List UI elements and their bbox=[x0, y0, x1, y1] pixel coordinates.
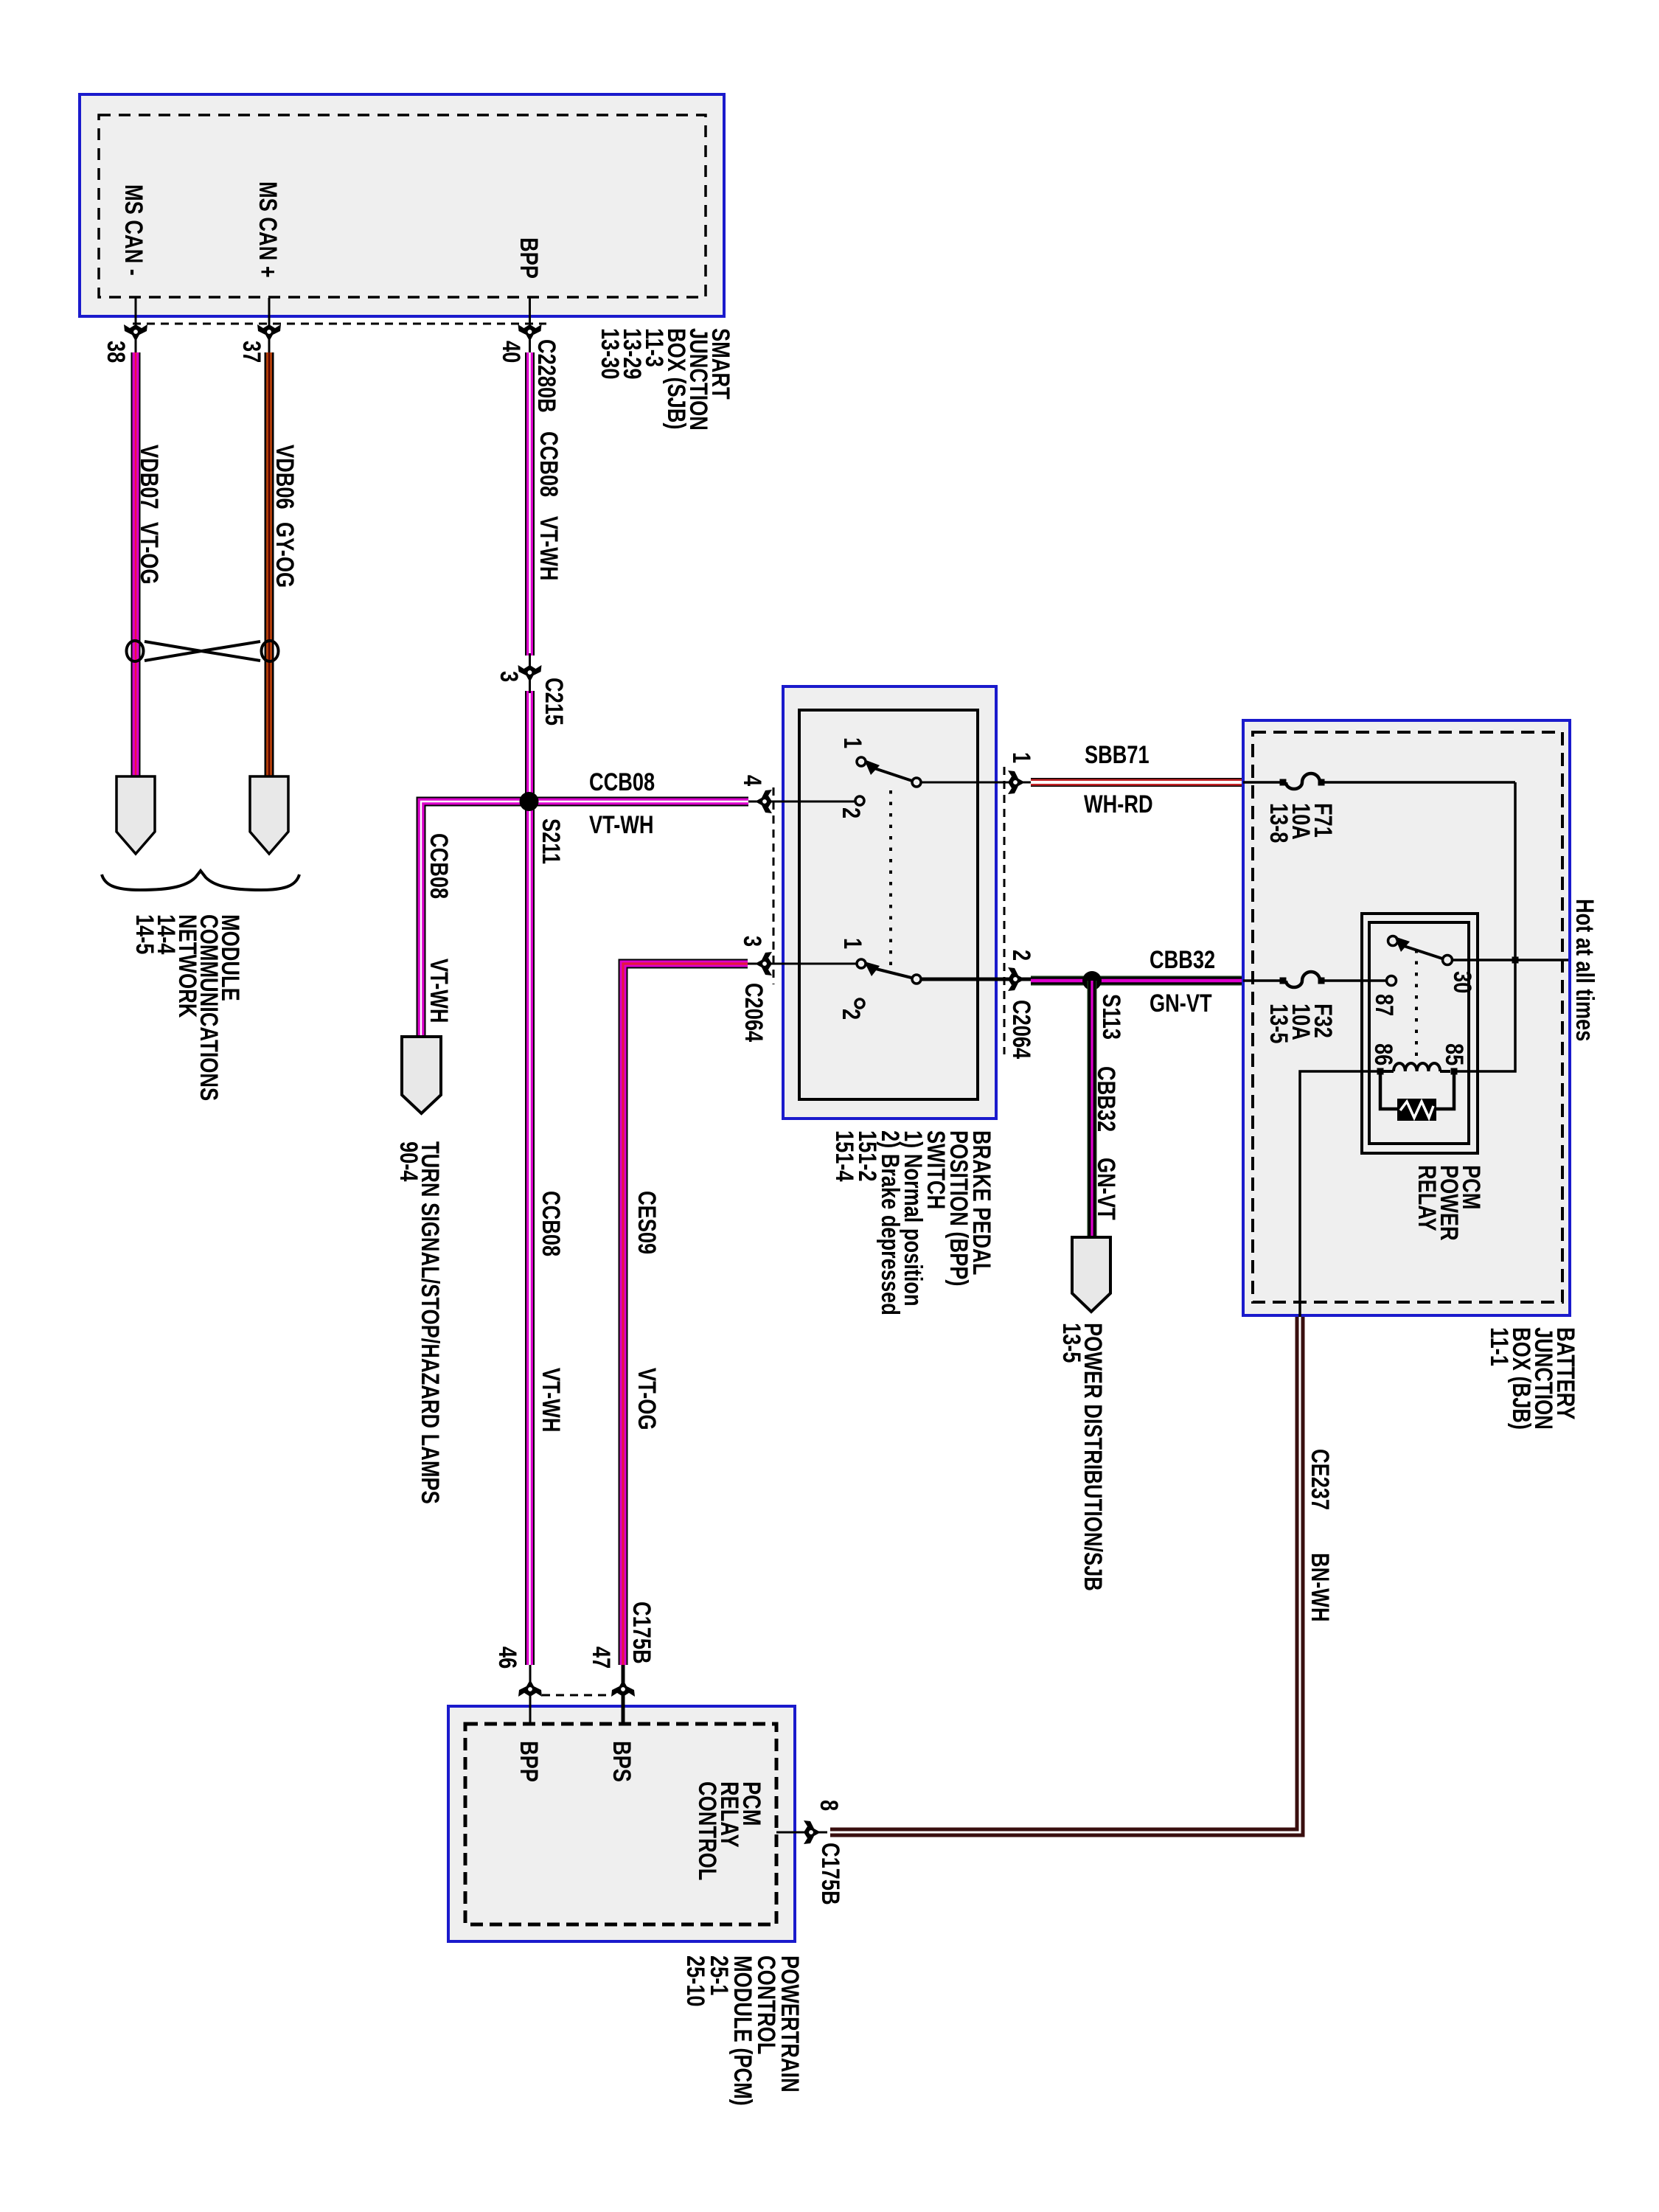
svg-text:1: 1 bbox=[838, 938, 867, 949]
SJB box (Smart Junction Box) bbox=[80, 94, 724, 316]
BPP switch box bbox=[783, 686, 996, 1119]
off-page pentagon (power distribution) bbox=[1072, 1237, 1110, 1312]
svg-text:CCB08: CCB08 bbox=[425, 833, 453, 899]
svg-text:VT-OG: VT-OG bbox=[135, 522, 164, 585]
svg-text:VT-WH: VT-WH bbox=[537, 1368, 566, 1433]
relay arm bbox=[1399, 945, 1442, 959]
svg-text:MODULECOMMUNICATIONSNETWORK14-: MODULECOMMUNICATIONSNETWORK14-414-5 bbox=[131, 914, 245, 1101]
svg-text:VT-OG: VT-OG bbox=[633, 1368, 661, 1430]
switch pin 2 line bbox=[922, 978, 1031, 981]
svg-text:2: 2 bbox=[1007, 950, 1036, 961]
pin stub 37 bbox=[268, 298, 271, 355]
PCM pin 8 line bbox=[776, 1832, 827, 1834]
PCM box bbox=[448, 1706, 795, 1941]
svg-text:WH-RD: WH-RD bbox=[1084, 790, 1153, 818]
connector dashed line C2064 right bbox=[1004, 767, 1006, 1054]
svg-text:40: 40 bbox=[497, 341, 526, 363]
svg-text:37: 37 bbox=[237, 341, 266, 363]
BJB box (Battery Junction Box) bbox=[1243, 720, 1570, 1315]
svg-text:MS CAN +: MS CAN + bbox=[254, 181, 282, 278]
relay dashed link bbox=[1415, 950, 1418, 1063]
svg-text:S113: S113 bbox=[1097, 994, 1126, 1040]
connector arrow pin 38 bbox=[124, 324, 147, 341]
connector C2280B dashed line bbox=[133, 323, 546, 325]
svg-text:CCB08: CCB08 bbox=[535, 431, 563, 497]
svg-text:VDB07: VDB07 bbox=[135, 445, 164, 509]
svg-text:C175B: C175B bbox=[816, 1843, 845, 1905]
PCM pin 46 stub bbox=[529, 1665, 532, 1724]
top switch arm bbox=[870, 767, 914, 782]
relay pivot contact bbox=[1388, 936, 1398, 946]
svg-text:VDB06: VDB06 bbox=[271, 445, 299, 509]
switch pin 3 line bbox=[748, 963, 857, 965]
hot feed line to pin 30 bbox=[1453, 959, 1568, 961]
svg-text:CCB08: CCB08 bbox=[537, 1191, 566, 1256]
svg-text:4: 4 bbox=[738, 775, 767, 786]
svg-text:MS CAN -: MS CAN - bbox=[119, 184, 148, 276]
svg-text:GN-VT: GN-VT bbox=[1150, 989, 1212, 1018]
wire CCB08 VT-WH main vertical bbox=[525, 352, 535, 1665]
switch pin 4 line bbox=[748, 801, 855, 803]
bottom switch contact 1 bbox=[857, 959, 866, 968]
top switch contact 2 bbox=[855, 796, 864, 805]
off-page connector pentagon (MS CAN -) bbox=[116, 776, 155, 854]
top switch pivot bbox=[912, 778, 921, 787]
svg-text:SBB71: SBB71 bbox=[1085, 740, 1150, 769]
svg-text:CE237: CE237 bbox=[1306, 1449, 1335, 1510]
connector dashed line C2064 left bbox=[773, 787, 775, 984]
svg-text:85: 85 bbox=[1440, 1043, 1469, 1065]
fuse F71 bbox=[1243, 773, 1515, 789]
connector arrow pin 3 bbox=[755, 952, 772, 975]
svg-text:CES09: CES09 bbox=[633, 1191, 661, 1254]
wire CES09 VT-OG bbox=[623, 964, 748, 1665]
pin stub 38 bbox=[135, 298, 137, 355]
svg-text:BPS: BPS bbox=[608, 1741, 636, 1782]
svg-text:POWERTRAINCONTROLMODULE (PCM)2: POWERTRAINCONTROLMODULE (PCM)25-125-10 bbox=[681, 1955, 804, 2106]
connector arrow pin 1 bbox=[1008, 771, 1025, 794]
svg-text:BPP: BPP bbox=[515, 237, 543, 279]
svg-text:BN-WH: BN-WH bbox=[1306, 1553, 1335, 1622]
svg-text:BPP: BPP bbox=[515, 1741, 543, 1782]
svg-text:2: 2 bbox=[837, 1009, 866, 1020]
PCM pin 47 stub bbox=[622, 1665, 625, 1724]
pin stub 40 bbox=[529, 298, 531, 355]
twisted pair symbol bbox=[127, 641, 279, 661]
connector C215 arrow bbox=[529, 653, 531, 693]
connector C175B dashed line bbox=[542, 1694, 612, 1697]
coil right line to F71 feed bbox=[1454, 782, 1515, 1071]
relay resistor bbox=[1380, 1073, 1454, 1121]
svg-text:86: 86 bbox=[1369, 1043, 1398, 1065]
bottom switch arm bbox=[870, 967, 914, 978]
svg-text:GN-VT: GN-VT bbox=[1092, 1158, 1121, 1220]
wire CBB32 GN-VT bbox=[1031, 976, 1243, 986]
svg-text:GY-OG: GY-OG bbox=[271, 522, 299, 588]
svg-text:38: 38 bbox=[102, 341, 131, 363]
connector arrow pin 46 bbox=[518, 1680, 542, 1697]
top switch contact 1 bbox=[857, 757, 866, 766]
connector arrow pin 47 bbox=[611, 1680, 635, 1697]
svg-text:30: 30 bbox=[1448, 971, 1477, 993]
svg-text:C2280B: C2280B bbox=[532, 339, 561, 413]
connector arrow pin 4 bbox=[755, 790, 772, 813]
svg-text:3: 3 bbox=[738, 936, 767, 947]
svg-text:CBB32: CBB32 bbox=[1092, 1066, 1121, 1132]
wire SBB71 WH-RD bbox=[1031, 778, 1243, 787]
svg-text:CBB32: CBB32 bbox=[1150, 945, 1215, 974]
splice S113 bbox=[1082, 971, 1102, 990]
connector arrow pin 8 bbox=[804, 1820, 821, 1844]
wire CCB08 branch to turn lamps bbox=[421, 801, 530, 1037]
svg-text:CCB08: CCB08 bbox=[589, 768, 655, 796]
brace bbox=[102, 871, 299, 890]
fuse F32 bbox=[1243, 972, 1386, 987]
wire VDB06 GY-OG bbox=[265, 352, 274, 776]
svg-text:2: 2 bbox=[837, 807, 866, 818]
svg-text:Hot at all times: Hot at all times bbox=[1571, 899, 1599, 1041]
svg-text:47: 47 bbox=[587, 1646, 616, 1669]
svg-text:BATTERYJUNCTIONBOX (BJB)11-1: BATTERYJUNCTIONBOX (BJB)11-1 bbox=[1485, 1327, 1580, 1430]
svg-text:POWER DISTRIBUTION/SJB13-5: POWER DISTRIBUTION/SJB13-5 bbox=[1057, 1323, 1107, 1591]
svg-text:46: 46 bbox=[493, 1646, 522, 1669]
svg-text:8: 8 bbox=[815, 1800, 844, 1811]
wire CBB32 branch down bbox=[1088, 981, 1097, 1237]
svg-text:SMARTJUNCTIONBOX (SJB)11-313-2: SMARTJUNCTIONBOX (SJB)11-313-2913-30 bbox=[596, 328, 735, 431]
svg-text:C2064: C2064 bbox=[740, 983, 768, 1042]
svg-text:F7110A13-8: F7110A13-8 bbox=[1265, 803, 1338, 843]
svg-text:TURN SIGNAL/STOP/HAZARD LAMPS9: TURN SIGNAL/STOP/HAZARD LAMPS90-4 bbox=[394, 1141, 445, 1504]
splice S211 bbox=[520, 792, 539, 811]
relay contact 87 bbox=[1387, 976, 1397, 986]
off-page pentagon (turn lamps) bbox=[402, 1037, 441, 1113]
bottom switch contact 2 bbox=[855, 999, 864, 1008]
connector arrow pin 37 bbox=[257, 324, 281, 341]
off-page connector pentagon (MS CAN +) bbox=[250, 776, 288, 854]
svg-text:S211: S211 bbox=[537, 818, 566, 864]
mechanical link dotted bbox=[889, 790, 892, 973]
svg-text:VT-WH: VT-WH bbox=[589, 810, 654, 839]
switch pin 1 line bbox=[922, 782, 1031, 784]
svg-text:3: 3 bbox=[495, 671, 524, 682]
wire CE237 BN-WH bbox=[830, 1317, 1300, 1832]
svg-text:BRAKE PEDALPOSITION (BPP)SWITC: BRAKE PEDALPOSITION (BPP)SWITCH1) Normal… bbox=[830, 1130, 996, 1315]
svg-text:C175B: C175B bbox=[627, 1601, 656, 1664]
junction dot bbox=[1512, 957, 1519, 964]
relay coil bbox=[1380, 1063, 1450, 1071]
svg-text:C215: C215 bbox=[540, 678, 568, 726]
svg-text:1: 1 bbox=[838, 737, 867, 748]
connector arrow pin 40 bbox=[518, 324, 542, 341]
svg-text:VT-WH: VT-WH bbox=[425, 959, 453, 1023]
svg-text:C2064: C2064 bbox=[1007, 1000, 1036, 1059]
connector arrow pin 2 bbox=[1008, 967, 1025, 991]
bottom switch pivot bbox=[912, 975, 921, 984]
PCM power relay box bbox=[1362, 914, 1478, 1153]
svg-text:F3210A13-5: F3210A13-5 bbox=[1265, 1004, 1338, 1043]
wire VDB07 VT-OG bbox=[131, 352, 141, 776]
svg-text:VT-WH: VT-WH bbox=[535, 516, 563, 581]
coil left line to CE237 bbox=[1300, 1071, 1380, 1317]
svg-text:87: 87 bbox=[1370, 994, 1399, 1016]
relay moving contact 30 bbox=[1443, 956, 1453, 965]
svg-text:1: 1 bbox=[1007, 752, 1036, 763]
wire CCB08 branch to BPP switch pin 4 bbox=[530, 797, 749, 807]
